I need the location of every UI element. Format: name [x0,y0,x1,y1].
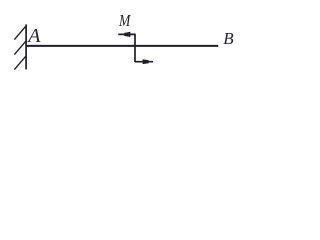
wall hatch 3 [14,56,25,69]
moment couple vertical link [134,34,136,62]
moment top arrow line (points left) [118,33,135,35]
label M (applied moment) [119,12,130,29]
moment bottom arrowhead [143,59,149,64]
wall hatch 2 [14,41,25,54]
beam A-B [26,45,218,47]
wall hatch 1 [14,26,25,39]
wall support line [25,24,27,69]
moment top arrowhead [124,32,130,37]
moment bottom arrow line (points right) [135,61,153,63]
label B (free end) [223,30,233,47]
label A (fixed end) [28,26,40,46]
